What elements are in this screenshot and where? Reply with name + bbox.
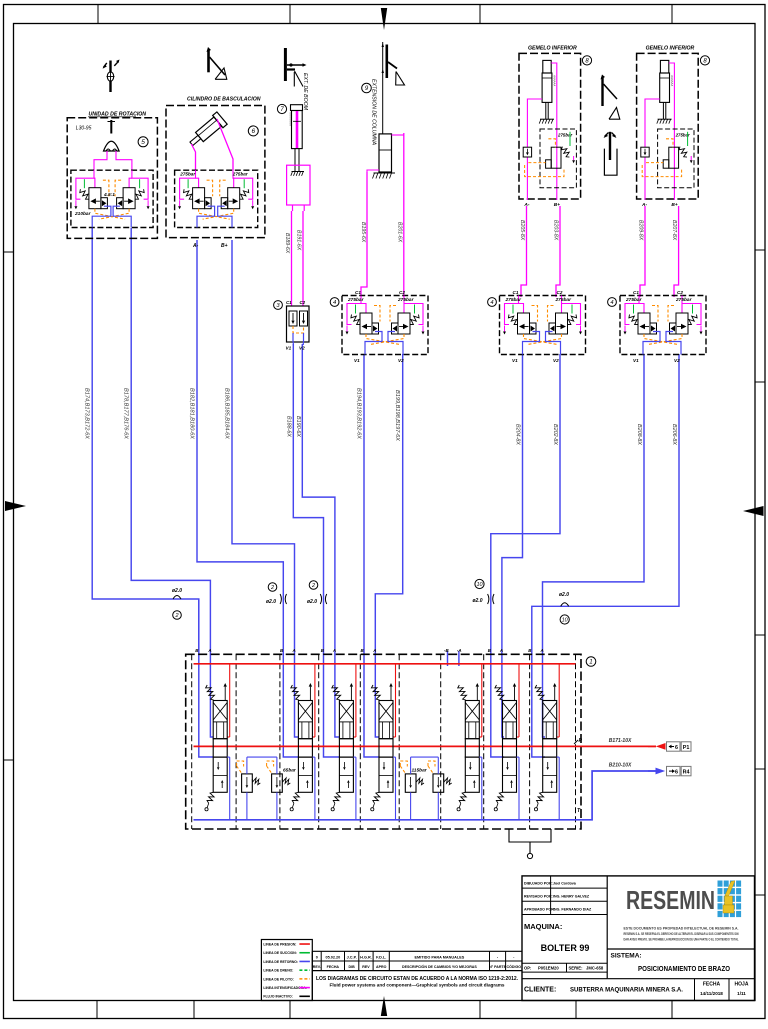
svg-text:10: 10 [562,617,569,623]
svg-text:LINEA DE PILOTO:: LINEA DE PILOTO: [263,977,293,981]
svg-text:B201-6X: B201-6X [397,222,403,243]
svg-text:REV.: REV. [313,965,321,969]
svg-text:0: 0 [316,955,318,959]
svg-text:ø2.0: ø2.0 [266,599,276,605]
svg-text:RESEMIN S.A. SE RESERVA EL DER: RESEMIN S.A. SE RESERVA EL DERECHO DE AL… [624,932,739,936]
svg-text:FECHA: FECHA [327,965,340,969]
svg-text:ø2.0: ø2.0 [172,588,182,594]
svg-text:A: A [499,648,503,653]
svg-text:APRO: APRO [376,965,387,969]
svg-text:B208-8X: B208-8X [636,424,642,445]
svg-text:C1: C1 [513,290,519,295]
svg-text:L30-95: L30-95 [76,126,92,132]
svg-text:RESEMIN: RESEMIN [626,885,715,915]
svg-text:14/11/2018: 14/11/2018 [700,991,723,996]
svg-text:1/11: 1/11 [737,991,746,996]
svg-text:C2: C2 [300,300,306,305]
svg-text:V1: V1 [512,358,518,363]
svg-text:V2: V2 [398,358,404,363]
svg-text:ING. HENRY GALVEZ: ING. HENRY GALVEZ [553,895,590,899]
svg-text:LINEA DE DRENO:: LINEA DE DRENO: [263,969,293,973]
svg-text:6: 6 [251,128,255,135]
svg-text:C2: C2 [557,290,563,295]
svg-text:DESCRIPCIÓN DE CAMBIOS Y/O MEJ: DESCRIPCIÓN DE CAMBIOS Y/O MEJORAS [402,964,477,969]
svg-text:275bar: 275bar [232,172,248,177]
svg-text:2: 2 [174,613,178,619]
svg-text:CILINDRO DE BASCULACION: CILINDRO DE BASCULACION [187,96,261,102]
svg-text:4: 4 [333,300,336,306]
svg-text:B+: B+ [554,202,560,208]
svg-text:JMC-658: JMC-658 [586,966,604,971]
svg-text:APROBADO POR:: APROBADO POR: [524,908,555,912]
svg-text:DIB: DIB [349,965,356,969]
svg-text:275bar: 275bar [347,297,365,303]
svg-text:C1: C1 [286,300,292,305]
svg-text:05.02.20: 05.02.20 [325,955,340,959]
svg-text:DIBUJADO POR:: DIBUJADO POR: [524,882,553,886]
svg-text:SERIE:: SERIE: [569,966,583,971]
svg-text:B190-6X: B190-6X [295,416,301,437]
svg-text:REV: REV [362,965,370,969]
svg-text:10: 10 [476,582,483,588]
svg-text:FECHA: FECHA [703,982,721,988]
svg-text:B207-8X: B207-8X [671,220,677,241]
svg-text:R4: R4 [683,770,690,776]
svg-text:V1: V1 [633,358,639,363]
svg-text:DAR AVISO PREVIO. SE PROHIBE L: DAR AVISO PREVIO. SE PROHIBE LA REPRODUC… [624,938,739,942]
svg-text:A: A [332,648,336,653]
svg-text:J.C.P.: J.C.P. [347,955,357,959]
svg-text:N° PARTE: N° PARTE [489,965,507,969]
svg-text:115bar: 115bar [412,768,428,774]
svg-text:CLIENTE:: CLIENTE: [524,987,556,994]
svg-text:EXTENSION DE COLUMNA: EXTENSION DE COLUMNA [370,79,376,146]
svg-text:B203-8X: B203-8X [552,220,558,241]
svg-text:SISTEMA:: SISTEMA: [611,953,642,960]
svg-text:4: 4 [610,300,613,306]
svg-text:B171-10X: B171-10X [609,738,632,744]
svg-text:SUBTERRA MAQUINARIA MINERA S.A: SUBTERRA MAQUINARIA MINERA S.A. [570,987,683,994]
svg-text:A: A [372,648,376,653]
svg-text:B178,B177,B176-6X: B178,B177,B176-6X [123,388,129,439]
svg-text:LINEA DE PRESION:: LINEA DE PRESION: [263,942,296,946]
svg-text:B194,B193,B192-6X: B194,B193,B192-6X [356,388,362,439]
svg-text:A-: A- [523,202,529,208]
svg-text:275bar: 275bar [397,297,415,303]
svg-text:EXT. DE BOOM: EXT. DE BOOM [302,73,308,111]
svg-text:P1: P1 [683,745,690,751]
svg-text:AAAAAA: AAAAAA [553,74,557,86]
svg-text:V1: V1 [286,346,292,351]
svg-text:V2: V2 [674,358,680,363]
svg-text:GEMELO INFERIOR: GEMELO INFERIOR [646,46,695,52]
svg-text:Fluid power systems and compon: Fluid power systems and component—Graphi… [330,983,506,988]
svg-text:A-: A- [641,202,647,208]
svg-text:ø2.0: ø2.0 [559,592,569,598]
svg-text:C1: C1 [355,290,361,295]
svg-text:B209-8X: B209-8X [637,220,643,241]
svg-text:B195-6X: B195-6X [360,222,366,243]
svg-text:2: 2 [311,583,315,589]
svg-text:B199,B198,B197-6X: B199,B198,B197-6X [394,390,400,441]
svg-text:B210-10X: B210-10X [609,763,632,769]
svg-text:-A: -A [457,648,462,653]
svg-text:P051EM20: P051EM20 [538,966,559,971]
svg-text:65bar: 65bar [283,768,297,774]
svg-text:LOS DIAGRAMAS DE CIRCUITO ESTA: LOS DIAGRAMAS DE CIRCUITO ESTAN DE ACUER… [316,976,518,982]
svg-text:OP:: OP: [524,966,531,971]
svg-text:275bar: 275bar [555,297,573,303]
svg-text:A-: A- [192,243,199,249]
svg-text:ø2.0: ø2.0 [472,598,482,604]
svg-text:1: 1 [589,659,592,666]
svg-text:FLUJO INACTIVO:: FLUJO INACTIVO: [263,995,292,999]
svg-text:A: A [292,648,296,653]
svg-text:HOJA: HOJA [735,982,749,988]
svg-text:B202-8X: B202-8X [552,424,558,445]
svg-text:CÓDIGO: CÓDIGO [507,964,522,969]
svg-text:GEMELO INFERIOR: GEMELO INFERIOR [528,46,577,52]
svg-text:H.G.R.: H.G.R. [360,955,372,959]
svg-text:MAQUINA:: MAQUINA: [524,922,562,931]
svg-text:B+: B+ [671,202,677,208]
svg-text:EMITIDO PARA MANUALES: EMITIDO PARA MANUALES [415,955,465,959]
svg-text:B174,B173,B172-6X: B174,B173,B172-6X [84,388,90,439]
svg-text:V2: V2 [299,346,305,351]
svg-text:B206-8X: B206-8X [671,424,677,445]
svg-text:B189-6X: B189-6X [284,233,290,254]
svg-text:5: 5 [141,139,145,146]
svg-text:V1: V1 [354,358,360,363]
svg-text:4: 4 [490,300,493,306]
svg-text:275bar: 275bar [625,297,643,303]
svg-text:6: 6 [675,770,678,776]
svg-text:F.D.L.: F.D.L. [376,955,386,959]
svg-text:275bar: 275bar [179,172,195,177]
svg-text:POSICIONAMIENTO DE BRAZO: POSICIONAMIENTO DE BRAZO [638,966,730,973]
svg-text:B186,B185,B184-6X: B186,B185,B184-6X [224,388,230,439]
svg-text:B191-6X: B191-6X [296,230,302,251]
svg-text:P: P [579,738,583,744]
svg-text:ESTE DOCUMENTO ES PROPIEDAD IN: ESTE DOCUMENTO ES PROPIEDAD INTELECTUAL … [624,927,739,931]
svg-text:ING. FERNANDO DIAZ: ING. FERNANDO DIAZ [553,908,592,912]
svg-text:B204-8X: B204-8X [515,424,521,445]
svg-text:2: 2 [270,585,274,591]
svg-text:A: A [540,648,544,653]
svg-text:B188-6X: B188-6X [286,416,292,437]
svg-text:A: A [207,648,211,653]
svg-text:210bar: 210bar [74,211,92,217]
svg-text:LINEA DE RETORNO:: LINEA DE RETORNO: [263,960,298,964]
svg-text:275bar: 275bar [505,297,523,303]
svg-text:REVISADO POR:: REVISADO POR: [524,895,553,899]
svg-text:6: 6 [675,745,678,751]
svg-text:LINEA DE SUCCION:: LINEA DE SUCCION: [263,951,296,955]
svg-text:B+: B+ [221,243,228,249]
svg-text:BOLTER 99: BOLTER 99 [541,943,590,953]
svg-text:B205-8X: B205-8X [519,220,525,241]
svg-text:C2: C2 [677,290,683,295]
svg-text:4.5:1: 4.5:1 [103,192,115,198]
svg-text:Joel Cordova: Joel Cordova [553,882,577,886]
svg-text:C1: C1 [633,290,639,295]
svg-text:ø2.0: ø2.0 [307,599,317,605]
svg-text:AAAAAA: AAAAAA [670,74,674,86]
svg-text:C2: C2 [399,290,405,295]
svg-text:V2: V2 [553,358,559,363]
svg-text:275bar: 275bar [675,297,693,303]
svg-text:B182,B181,B180-6X: B182,B181,B180-6X [189,388,195,439]
